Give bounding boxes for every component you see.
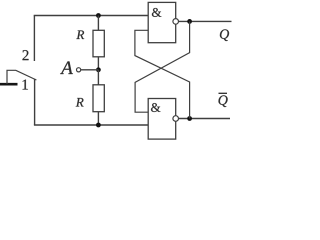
label A — [60, 61, 73, 74]
node junction top rail — [96, 13, 101, 18]
resistor R1 — [93, 16, 104, 70]
label 1 — [23, 80, 28, 90]
label Q — [220, 29, 229, 41]
wire U1 output to Q — [179, 20, 232, 22]
terminal A circle — [77, 68, 81, 72]
node junction bottom rail — [96, 123, 101, 128]
U2 output bubble — [173, 116, 179, 122]
switch contact 1 wire — [34, 79, 36, 125]
wire top rail — [34, 15, 149, 17]
nand gate U1 body — [148, 2, 176, 42]
wire bottom rail — [34, 124, 148, 126]
switch contact 2 wire — [33, 16, 35, 62]
wire cross-coupling Qbar to U1 input — [135, 30, 190, 118]
label R (R1 value) — [76, 30, 84, 39]
U1 output bubble — [173, 19, 179, 25]
node Q junction — [187, 19, 192, 24]
resistor R2 — [93, 70, 104, 125]
nand gate U2 body — [148, 99, 176, 140]
label R (R2 value) — [76, 98, 84, 107]
switch lever (SPDT arm toward position 1) — [7, 70, 36, 84]
wire cross-coupling Q to U2 input — [135, 21, 190, 112]
label 2 — [23, 50, 29, 60]
wire node A lead — [81, 69, 99, 71]
node Qbar junction — [187, 116, 192, 121]
wire U2 output to Qbar — [178, 118, 230, 120]
label U1 ampersand — [152, 8, 161, 17]
node A junction — [96, 67, 101, 72]
label U2 ampersand — [151, 103, 160, 112]
switch pole terminal bar — [0, 83, 18, 86]
label Qbar — [219, 93, 228, 107]
